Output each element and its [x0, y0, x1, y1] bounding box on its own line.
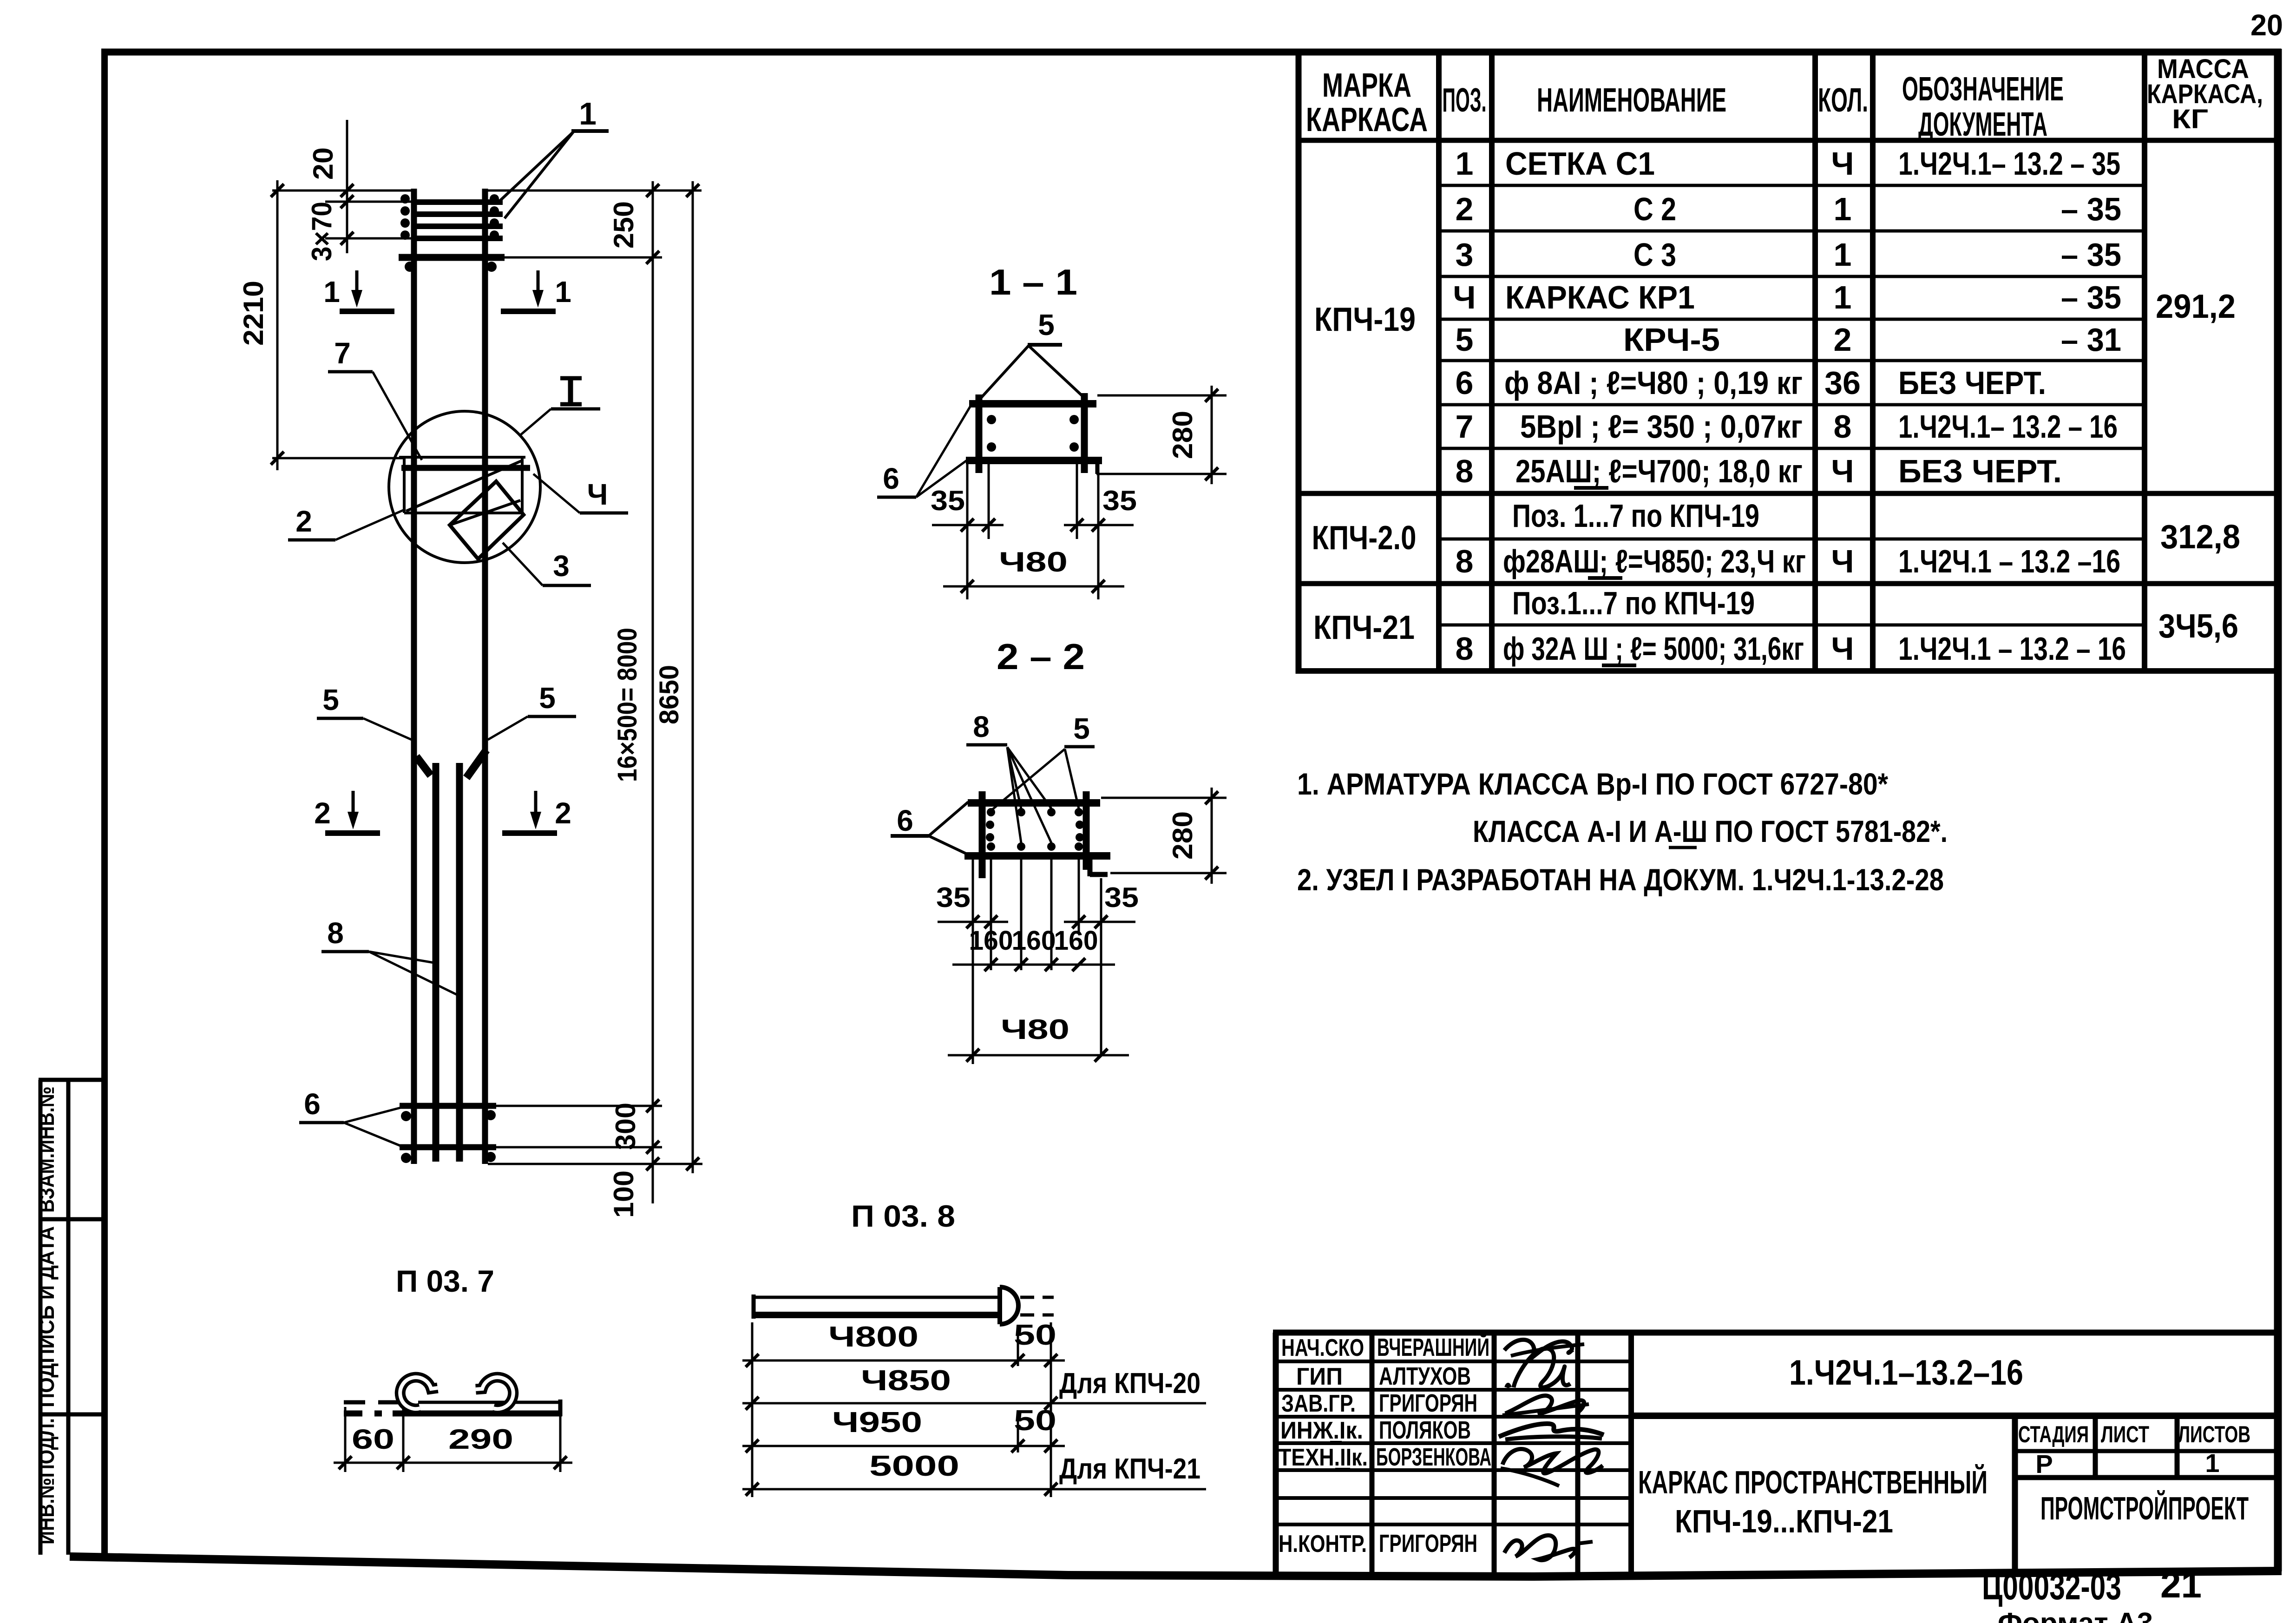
svg-text:20: 20 — [2250, 8, 2283, 42]
svg-text:1.Ч2Ч.1–13.2–16: 1.Ч2Ч.1–13.2–16 — [1789, 1353, 2023, 1393]
svg-text:С 2: С 2 — [1633, 191, 1676, 227]
dim line 160s — [952, 964, 1115, 966]
svg-text:16×500= 8000: 16×500= 8000 — [612, 628, 643, 782]
svg-text:Для КПЧ-20: Для КПЧ-20 — [1059, 1367, 1200, 1400]
svg-text:Ч80: Ч80 — [1001, 1014, 1069, 1045]
extension 480 left — [966, 539, 969, 599]
bar KP1 horizontal — [401, 465, 530, 471]
poz7 bar dashed top left — [344, 1400, 400, 1405]
poz8 dim row 4850 — [742, 1402, 1206, 1405]
svg-text:Ч: Ч — [587, 478, 608, 511]
dimensions left of column — [238, 120, 702, 470]
SECTION 1-1 — [877, 262, 1227, 599]
svg-text:Для КПЧ-21: Для КПЧ-21 — [1059, 1453, 1200, 1485]
svg-text:3: 3 — [553, 549, 570, 583]
SPECIFICATION TABLE — [1296, 52, 2278, 674]
extension 480 left s2 — [972, 934, 974, 1064]
svg-text:ПРОМСТРОЙПРОЕКТ: ПРОМСТРОЙПРОЕКТ — [2040, 1490, 2249, 1526]
svg-text:КАРКАС ПРОСТРАНСТВЕННЫЙ: КАРКАС ПРОСТРАНСТВЕННЫЙ — [1638, 1464, 1988, 1500]
svg-text:КАРКАС КР1: КАРКАС КР1 — [1505, 279, 1695, 315]
mesh C1 top wire 1 — [416, 199, 503, 205]
dim line 35 right s2 — [1064, 921, 1135, 923]
table row line r6 — [1439, 403, 2145, 407]
стадия/лист divider — [2093, 1416, 2098, 1478]
extension line bottom y2505 — [488, 1163, 702, 1165]
svg-text:Поз. 1...7 по КПЧ-19: Поз. 1...7 по КПЧ-19 — [1512, 498, 1759, 534]
svg-text:7: 7 — [334, 336, 351, 370]
svg-text:3: 3 — [1456, 237, 1474, 273]
svg-text:Р: Р — [2035, 1449, 2053, 1478]
poz8 dashed continuation — [1020, 1296, 1054, 1299]
svg-text:ГРИГОРЯН: ГРИГОРЯН — [1379, 1389, 1477, 1417]
svg-text:ПОДПИСЬ И ДАТА: ПОДПИСЬ И ДАТА — [34, 1226, 59, 1407]
poz8 bar bottom line — [754, 1312, 1000, 1318]
svg-text:2: 2 — [555, 796, 571, 830]
svg-text:280: 280 — [1167, 811, 1198, 860]
svg-text:50: 50 — [1014, 1405, 1056, 1437]
svg-text:3×70: 3×70 — [306, 202, 337, 261]
title block left edge — [1273, 1333, 1279, 1578]
title area divider horizontal — [1631, 1413, 2278, 1419]
dim 280 extension bottom — [1096, 464, 1098, 474]
extension line top y410 — [272, 190, 415, 192]
poz7 bar dashed bottom left — [344, 1411, 382, 1417]
svg-text:8: 8 — [973, 710, 990, 743]
signature row line 2 — [1276, 1388, 1631, 1392]
svg-text:С 3: С 3 — [1633, 237, 1676, 273]
svg-text:– 35: – 35 — [2061, 279, 2121, 315]
svg-text:2 – 2: 2 – 2 — [997, 636, 1085, 677]
стадия values bottom — [2015, 1475, 2278, 1480]
signature Григорян bottom — [1504, 1535, 1575, 1560]
svg-text:35: 35 — [1104, 882, 1139, 913]
rebar right longitudinal — [482, 189, 488, 1164]
svg-text:6: 6 — [304, 1087, 321, 1121]
frame bottom border — [70, 1557, 2282, 1577]
svg-text:8: 8 — [1456, 453, 1474, 489]
SECTION 2-2 — [891, 636, 1227, 1064]
svg-text:ф 8АI ; ℓ=Ч80 ; 0,19 кг: ф 8АI ; ℓ=Ч80 ; 0,19 кг — [1504, 365, 1803, 401]
svg-text:8650: 8650 — [654, 665, 684, 724]
dimensions right of column — [488, 181, 702, 1218]
table row line r7 — [1439, 447, 2145, 450]
table section line КПЧ-19/КПЧ-20 — [1296, 491, 2278, 496]
svg-text:КОЛ.: КОЛ. — [1818, 82, 1868, 119]
extension line 3x70 bottom — [325, 237, 411, 240]
svg-text:Ч: Ч — [1453, 279, 1476, 315]
svg-text:ф 32А Ш ; ℓ= 5000; 31,6кг: ф 32А Ш ; ℓ= 5000; 31,6кг — [1503, 631, 1804, 667]
svg-text:1.Ч2Ч.1 – 13.2 –16: 1.Ч2Ч.1 – 13.2 –16 — [1898, 543, 2120, 579]
svg-text:5: 5 — [1038, 308, 1055, 342]
cut 1-1 right bar — [501, 309, 556, 314]
diamond KRCH-5 — [450, 481, 524, 559]
svg-text:1: 1 — [323, 275, 340, 309]
svg-text:Ч: Ч — [1831, 145, 1854, 182]
svg-text:2: 2 — [1456, 191, 1474, 227]
svg-text:1: 1 — [1834, 237, 1852, 273]
svg-text:БЕЗ ЧЕРТ.: БЕЗ ЧЕРТ. — [1898, 453, 2062, 489]
signature row line 7 — [1276, 1523, 1631, 1526]
svg-text:Ч: Ч — [1831, 453, 1854, 489]
table left border — [1296, 52, 1302, 674]
dim line 20/3x70 — [346, 120, 348, 253]
cut 1-1 left bar — [340, 309, 394, 314]
svg-text:1.Ч2Ч.1– 13.2 – 35: 1.Ч2Ч.1– 13.2 – 35 — [1898, 145, 2120, 182]
svg-text:ВЗАМ.ИНВ.№: ВЗАМ.ИНВ.№ — [34, 1086, 59, 1213]
poz7 extensions — [344, 1407, 347, 1472]
svg-text:20: 20 — [308, 147, 339, 180]
svg-text:2: 2 — [314, 796, 331, 830]
svg-text:21: 21 — [2160, 1564, 2202, 1605]
poz7 bar top line — [418, 1401, 561, 1404]
mesh C1 top wire 4 — [416, 236, 503, 241]
лист/листов divider — [2175, 1416, 2180, 1478]
svg-text:36: 36 — [1824, 365, 1861, 401]
dim line 480 — [943, 585, 1124, 588]
table column line Наименование/Кол — [1812, 52, 1818, 671]
svg-text:280: 280 — [1167, 411, 1198, 459]
svg-text:Ч: Ч — [1831, 543, 1854, 579]
extension line 300 bottom — [496, 1146, 662, 1149]
signature Алтухов — [1514, 1348, 1570, 1387]
frame top border — [101, 49, 2281, 56]
svg-text:ТЕХН.IIк.: ТЕХН.IIк. — [1279, 1444, 1368, 1471]
svg-text:6: 6 — [1456, 365, 1474, 401]
node circle — [389, 411, 540, 563]
dim line 480 s2 — [948, 1054, 1129, 1057]
extension 35 left — [966, 464, 969, 539]
mesh C1 bottom wire 1 — [400, 1103, 496, 1109]
svg-text:300: 300 — [610, 1103, 641, 1150]
NODE I detail — [389, 411, 540, 563]
dim line 35 right — [1064, 524, 1134, 526]
dim line 8650 — [692, 181, 694, 1173]
svg-text:2: 2 — [1834, 322, 1852, 358]
svg-text:БОРЗЕНКОВА: БОРЗЕНКОВА — [1376, 1443, 1491, 1471]
svg-text:КЛАССА А-I И А-Ш ПО ГОСТ 5: КЛАССА А-I И А-Ш ПО ГОСТ 5781-82*. — [1473, 814, 1948, 848]
poz8 extension 50 row1 — [1017, 1330, 1019, 1366]
svg-text:1: 1 — [2205, 1448, 2219, 1478]
signature column line 2 — [1492, 1333, 1497, 1579]
extension 35 right — [1076, 464, 1078, 539]
svg-text:ПОЗ.: ПОЗ. — [1443, 82, 1487, 119]
svg-text:АЛТУХОВ: АЛТУХОВ — [1379, 1362, 1471, 1390]
dim line 16x500 — [652, 181, 654, 1203]
dim line 2210 — [276, 180, 279, 470]
cut 1-1 left arrow — [355, 270, 359, 293]
svg-text:НАИМЕНОВАНИЕ: НАИМЕНОВАНИЕ — [1537, 82, 1726, 119]
table row line r5 — [1439, 359, 2145, 362]
cut 1-1 right arrow — [537, 270, 540, 293]
stirrup closing hook — [1088, 860, 1093, 876]
signature row line 3 — [1276, 1415, 1631, 1419]
dim 280 extension top — [1101, 797, 1227, 799]
svg-text:КРЧ-5: КРЧ-5 — [1623, 322, 1720, 358]
svg-text:5: 5 — [1456, 322, 1474, 358]
underline II — [1335, 1468, 1350, 1471]
svg-text:291,2: 291,2 — [2156, 288, 2236, 325]
mesh C1 bottom wire 2 — [400, 1144, 496, 1150]
svg-text:100: 100 — [608, 1170, 639, 1218]
svg-text:2. УЗЕЛ I РАЗРАБОТАН НА ДО: 2. УЗЕЛ I РАЗРАБОТАН НА ДОКУМ. 1.Ч2Ч.1-1… — [1297, 862, 1944, 897]
svg-text:160: 160 — [1054, 926, 1098, 956]
svg-text:ОБОЗНАЧЕНИЕ: ОБОЗНАЧЕНИЕ — [1902, 71, 2064, 108]
underline III row12 — [1602, 664, 1636, 667]
svg-text:ЗАВ.ГР.: ЗАВ.ГР. — [1281, 1390, 1356, 1417]
poz8 extension 50 row3 — [1017, 1415, 1019, 1452]
frame left border — [101, 49, 108, 1557]
poz8 bar left cap — [752, 1294, 756, 1319]
svg-text:КПЧ-19...КПЧ-21: КПЧ-19...КПЧ-21 — [1675, 1503, 1893, 1539]
poz8 dim row 5000 — [742, 1488, 1206, 1491]
svg-text:1: 1 — [1834, 279, 1852, 315]
signature Поляков — [1499, 1424, 1604, 1437]
poz8 dim row 4800 — [742, 1360, 1065, 1362]
svg-text:290: 290 — [448, 1424, 513, 1455]
poz8 bar top line — [754, 1296, 1000, 1299]
svg-text:8: 8 — [327, 916, 344, 950]
svg-text:1: 1 — [555, 275, 571, 309]
POZ 8 DETAIL — [742, 1199, 1206, 1497]
dim line 35 left — [932, 524, 1004, 526]
svg-text:Ч: Ч — [1831, 631, 1854, 667]
poz7 left hook — [400, 1377, 438, 1409]
svg-text:1. АРМАТУРА КЛАССА Вр-I ПО: 1. АРМАТУРА КЛАССА Вр-I ПО ГОСТ 6727-80* — [1297, 767, 1888, 801]
extension 2210 bottom — [272, 457, 403, 460]
stamp boxes left edge — [39, 1080, 101, 1555]
mesh hooks top left — [400, 194, 499, 240]
svg-text:ГРИГОРЯН: ГРИГОРЯН — [1379, 1530, 1477, 1557]
signature Григорян — [1505, 1396, 1584, 1414]
svg-text:35: 35 — [936, 882, 971, 913]
POZ 7 DETAIL — [334, 1264, 572, 1472]
svg-text:П 03. 8: П 03. 8 — [851, 1199, 955, 1233]
svg-text:3Ч5,6: 3Ч5,6 — [2158, 608, 2238, 645]
mesh C2 edge-on bar top — [399, 254, 505, 261]
svg-text:25АШ; ℓ=Ч700; 18,0 кг: 25АШ; ℓ=Ч700; 18,0 кг — [1515, 453, 1803, 489]
title block top line — [1273, 1330, 2278, 1336]
table row line r4 — [1439, 318, 2145, 321]
svg-text:60: 60 — [352, 1424, 394, 1455]
table header bottom line — [1296, 138, 2278, 143]
svg-text:6: 6 — [897, 804, 913, 837]
svg-text:ВЧЕРАШНИЙ: ВЧЕРАШНИЙ — [1377, 1333, 1489, 1361]
svg-text:1 – 1: 1 – 1 — [989, 262, 1077, 302]
стадия header bottom — [2015, 1449, 2278, 1453]
svg-text:ПОЛЯКОВ: ПОЛЯКОВ — [1379, 1416, 1471, 1444]
mesh C1 top wire 2 — [416, 211, 503, 217]
signature column line 1 — [1370, 1333, 1375, 1579]
poz8 dim row 4950 — [742, 1445, 1065, 1447]
svg-text:КГ: КГ — [2172, 104, 2208, 134]
svg-text:160: 160 — [1012, 926, 1056, 956]
stirrup bottom bar — [964, 852, 1110, 860]
svg-text:– 35: – 35 — [2061, 237, 2121, 273]
underline III note — [1669, 846, 1697, 849]
stirrup left bar — [979, 791, 986, 878]
svg-text:СЕТКА С1: СЕТКА С1 — [1505, 145, 1655, 182]
svg-text:312,8: 312,8 — [2160, 519, 2240, 556]
table bottom line — [1296, 668, 2278, 674]
table row line r3 — [1439, 275, 2145, 278]
svg-text:1: 1 — [579, 96, 597, 131]
section cut marks — [314, 270, 571, 833]
NOTES — [1297, 767, 1948, 897]
table row line r9 — [1439, 538, 2145, 541]
svg-text:5: 5 — [1073, 712, 1090, 745]
signature Борзенкова — [1502, 1449, 1603, 1473]
signature/title divider — [1628, 1333, 1634, 1579]
cut 2-2 left arrow — [352, 791, 355, 814]
svg-text:8: 8 — [1834, 408, 1852, 445]
svg-text:КПЧ-19: КПЧ-19 — [1314, 301, 1416, 338]
svg-text:Формат А3: Формат А3 — [1998, 1607, 2153, 1623]
svg-text:ИНВ.№ПОДЛ.: ИНВ.№ПОДЛ. — [34, 1418, 59, 1544]
mesh C2 plate top line — [399, 456, 525, 459]
table column line Обозначение/Масса — [2142, 52, 2147, 671]
svg-text:5000: 5000 — [869, 1450, 959, 1482]
dim 280 extension top — [1097, 394, 1227, 397]
svg-text:35: 35 — [931, 485, 965, 516]
bar dots section 2-2 — [986, 808, 1084, 851]
table column line Марка/Поз — [1436, 52, 1442, 671]
stirrup top bar — [969, 400, 1096, 407]
svg-text:Ч800: Ч800 — [828, 1321, 918, 1353]
svg-text:ГИП: ГИП — [1296, 1363, 1343, 1390]
svg-text:ДОКУМЕНТА: ДОКУМЕНТА — [1918, 106, 2047, 143]
underline III row8 — [1574, 486, 1608, 490]
svg-text:КАРКАСА: КАРКАСА — [1306, 101, 1428, 138]
svg-text:6: 6 — [883, 462, 899, 495]
callout labels — [288, 96, 628, 1146]
svg-text:8: 8 — [1456, 543, 1474, 579]
plate diagonal — [406, 461, 521, 511]
svg-text:1: 1 — [1834, 191, 1852, 227]
stirrup top bar — [968, 799, 1100, 807]
stirrup bottom bar — [966, 457, 1102, 464]
svg-text:Ч950: Ч950 — [832, 1406, 922, 1439]
TITLE BLOCK — [1273, 1333, 2278, 1579]
svg-text:ЛИСТОВ: ЛИСТОВ — [2178, 1421, 2250, 1447]
mesh C2 plate right — [521, 457, 524, 513]
table section line КПЧ-20/КПЧ-21 — [1296, 581, 2278, 586]
ticks dim right — [646, 184, 659, 197]
table column line Кол/Обозначение — [1870, 52, 1876, 671]
svg-text:Ч80: Ч80 — [999, 546, 1068, 578]
svg-text:КПЧ-2.0: КПЧ-2.0 — [1312, 519, 1417, 557]
svg-text:8: 8 — [1456, 631, 1474, 667]
svg-text:КПЧ-21: КПЧ-21 — [1313, 609, 1415, 646]
svg-text:Ч850: Ч850 — [861, 1365, 951, 1397]
svg-text:Поз.1...7 по КПЧ-19: Поз.1...7 по КПЧ-19 — [1512, 585, 1755, 621]
svg-text:НАЧ.СКО: НАЧ.СКО — [1281, 1334, 1364, 1361]
svg-text:5ВрI ; ℓ= 350 ; 0,07кг: 5ВрI ; ℓ= 350 ; 0,07кг — [1520, 408, 1803, 445]
extension line 20 bottom — [325, 201, 417, 203]
dim line 280 — [1211, 386, 1213, 484]
svg-text:БЕЗ ЧЕРТ.: БЕЗ ЧЕРТ. — [1898, 365, 2046, 401]
svg-text:ф28АШ; ℓ=Ч850; 23,Ч кг: ф28АШ; ℓ=Ч850; 23,Ч кг — [1503, 543, 1806, 579]
signature row line 6 — [1276, 1496, 1631, 1500]
svg-text:П 03. 7: П 03. 7 — [396, 1264, 494, 1298]
svg-text:1.Ч2Ч.1 – 13.2 – 16: 1.Ч2Ч.1 – 13.2 – 16 — [1898, 631, 2126, 667]
table row line r11 — [1439, 624, 2145, 627]
table row line r1 — [1439, 184, 2145, 187]
dim line 280 — [1211, 788, 1213, 884]
svg-text:2210: 2210 — [238, 281, 269, 346]
diamond extra chord — [450, 500, 520, 525]
extension line 300 top — [496, 1105, 662, 1107]
extension line 250 bottom — [505, 256, 662, 259]
dim line 35 left s2 — [938, 921, 1008, 923]
node label I — [568, 377, 573, 405]
poz8 extension right — [1050, 1322, 1052, 1497]
svg-text:5: 5 — [539, 681, 556, 715]
underline III row10 — [1588, 576, 1622, 580]
signature row line 5 — [1276, 1468, 1631, 1472]
rebar left longitudinal — [411, 189, 417, 1164]
cut 2-2 right bar — [502, 830, 557, 836]
svg-text:1.Ч2Ч.1– 13.2 – 16: 1.Ч2Ч.1– 13.2 – 16 — [1898, 408, 2118, 445]
svg-text:1: 1 — [1456, 145, 1474, 182]
tick 2210 bottom — [271, 452, 284, 465]
rebar poz8 inner right — [456, 763, 463, 1162]
underline I — [1330, 1441, 1342, 1444]
ticks 20/3x70 — [341, 184, 354, 197]
svg-text:7: 7 — [1456, 408, 1474, 445]
signature column line 3 — [1575, 1333, 1581, 1579]
signatures — [1499, 1340, 1604, 1560]
poz7 dim line — [334, 1462, 572, 1464]
cut 2-2 right arrow — [534, 791, 538, 814]
svg-text:– 31: – 31 — [2061, 322, 2121, 358]
svg-text:ИНЖ.Iк.: ИНЖ.Iк. — [1280, 1417, 1363, 1444]
tick 2210 top — [271, 184, 284, 197]
svg-text:Н.КОНТР.: Н.КОНТР. — [1279, 1531, 1367, 1557]
svg-text:50: 50 — [1014, 1319, 1056, 1351]
poz8 cut mark right — [466, 750, 486, 778]
svg-text:ЛИСТ: ЛИСТ — [2101, 1421, 2149, 1447]
signature row line 4 — [1276, 1441, 1631, 1445]
cut 2-2 left bar — [325, 830, 380, 836]
poz7 right hook — [476, 1377, 513, 1409]
poz8 extension left — [751, 1322, 754, 1497]
mesh C2 plate bottom — [404, 512, 522, 514]
signature row line 1 — [1276, 1360, 1631, 1363]
svg-text:5: 5 — [322, 683, 339, 716]
rebar poz8 inner left — [433, 763, 440, 1162]
poz8 anchor head — [1000, 1287, 1018, 1324]
svg-text:– 35: – 35 — [2061, 191, 2121, 227]
svg-text:160: 160 — [969, 926, 1013, 956]
stirrup right bar — [1083, 791, 1090, 870]
svg-text:МАРКА: МАРКА — [1322, 67, 1411, 104]
svg-text:2: 2 — [295, 505, 312, 538]
mesh C2 plate left — [403, 457, 406, 513]
poz7 bar bottom line — [393, 1411, 562, 1417]
frame right border — [2274, 49, 2282, 1571]
svg-text:СТАДИЯ: СТАДИЯ — [2018, 1421, 2089, 1447]
table column line Поз/Наименование — [1489, 52, 1495, 671]
poz7 bar right cap — [558, 1400, 563, 1416]
extensions below section 2-2 — [972, 860, 974, 934]
stirrup left bar — [976, 394, 983, 473]
svg-text:35: 35 — [1102, 485, 1137, 516]
poz8 cut mark left — [416, 756, 431, 775]
mesh C1 top wire 3 — [416, 223, 503, 229]
mesh C2 hook dots — [405, 262, 497, 272]
svg-text:Ц00032-03: Ц00032-03 — [1982, 1566, 2121, 1607]
corner bar dots — [987, 415, 1079, 452]
